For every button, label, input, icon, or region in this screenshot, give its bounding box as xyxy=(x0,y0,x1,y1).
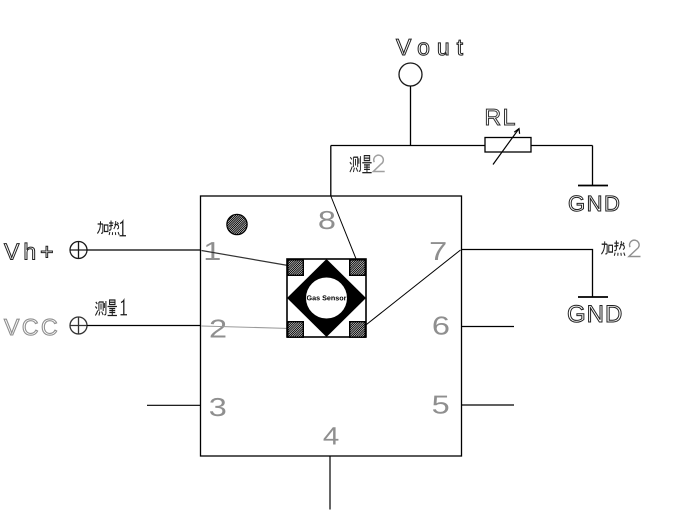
wire pin 8 vertical xyxy=(330,146,332,197)
svg-text:RL: RL xyxy=(485,104,517,130)
svg-text:6: 6 xyxy=(432,311,450,341)
svg-text:4: 4 xyxy=(323,423,340,451)
wire node 8 to resistor RL (horizontal) xyxy=(331,145,485,147)
svg-text:GND: GND xyxy=(567,301,623,328)
char 量 xyxy=(362,156,371,173)
gas sensor pad top-left xyxy=(288,260,321,293)
svg-text:VCC: VCC xyxy=(4,314,60,340)
wire Vout vertical xyxy=(410,86,412,146)
wire pin 4 stub xyxy=(329,456,331,510)
terminal Vh+ xyxy=(70,242,87,259)
digit 1 of 加热1 xyxy=(120,221,127,236)
terminal VCC xyxy=(70,317,87,334)
wire pin 2 to sensor pad (diagonal) xyxy=(202,326,291,329)
char 热 xyxy=(109,221,119,236)
wire VCC to pin 2 xyxy=(87,325,201,327)
svg-text:5: 5 xyxy=(432,390,450,420)
label 加热1 (heater 1) xyxy=(97,221,126,236)
gas sensor pad bottom-right xyxy=(350,322,383,355)
resistor RL (variable) xyxy=(485,138,531,153)
char 测 xyxy=(95,301,106,316)
char 量 xyxy=(108,300,117,316)
svg-text:2: 2 xyxy=(209,314,227,344)
char 热 xyxy=(614,241,625,256)
index dot (hatched circle in package corner) xyxy=(227,214,269,256)
wire pin 6 stub xyxy=(461,326,514,328)
label 测量1 (measure 1) xyxy=(95,300,127,316)
char 加 xyxy=(97,221,108,233)
svg-text:7: 7 xyxy=(429,236,447,266)
terminal Vout xyxy=(399,63,422,86)
ground GND1 bar xyxy=(578,185,608,187)
gas sensor element body xyxy=(287,259,366,337)
char 加 xyxy=(601,241,612,254)
wire Vh+ to pin 1 xyxy=(87,249,201,251)
svg-text:8: 8 xyxy=(318,205,336,235)
svg-text:Vout: Vout xyxy=(396,34,470,60)
wire pin 7 to sensor pad (diagonal) xyxy=(360,250,461,330)
label 加热2 (heater 2) xyxy=(601,241,625,256)
wire resistor RL to GND corner xyxy=(531,145,593,147)
digit 1 of 测量1 xyxy=(121,300,128,315)
wire pin 8 to sensor pad (diagonal) xyxy=(331,197,358,263)
svg-text:3: 3 xyxy=(209,392,227,422)
label digit 2 of 加热2 xyxy=(629,240,641,256)
gas sensor pad bottom-left xyxy=(288,322,321,355)
wire pin 1 to sensor pad (diagonal) xyxy=(202,251,292,267)
resistor RL arrow xyxy=(493,129,519,165)
wire pin 5 stub xyxy=(461,404,514,406)
wire GND1 vertical xyxy=(592,146,594,186)
IC body U1 (8-pin sensor package outline) xyxy=(201,196,462,456)
gas sensor pad top-right xyxy=(350,260,383,293)
ground GND2 bar xyxy=(578,296,608,298)
gas sensor center circle xyxy=(306,278,347,319)
label 测量2 (measure 2) xyxy=(350,156,372,173)
label digit 2 of 测量2 xyxy=(373,155,384,171)
wire pin 3 stub xyxy=(147,404,201,406)
wire pin 7 to GND2 xyxy=(461,250,593,297)
char 测 xyxy=(350,156,361,172)
gas sensor diamond xyxy=(287,259,366,337)
svg-text:GND: GND xyxy=(568,191,621,216)
svg-text:Vh+: Vh+ xyxy=(4,239,58,265)
svg-text:Gas Sensor: Gas Sensor xyxy=(306,295,346,302)
